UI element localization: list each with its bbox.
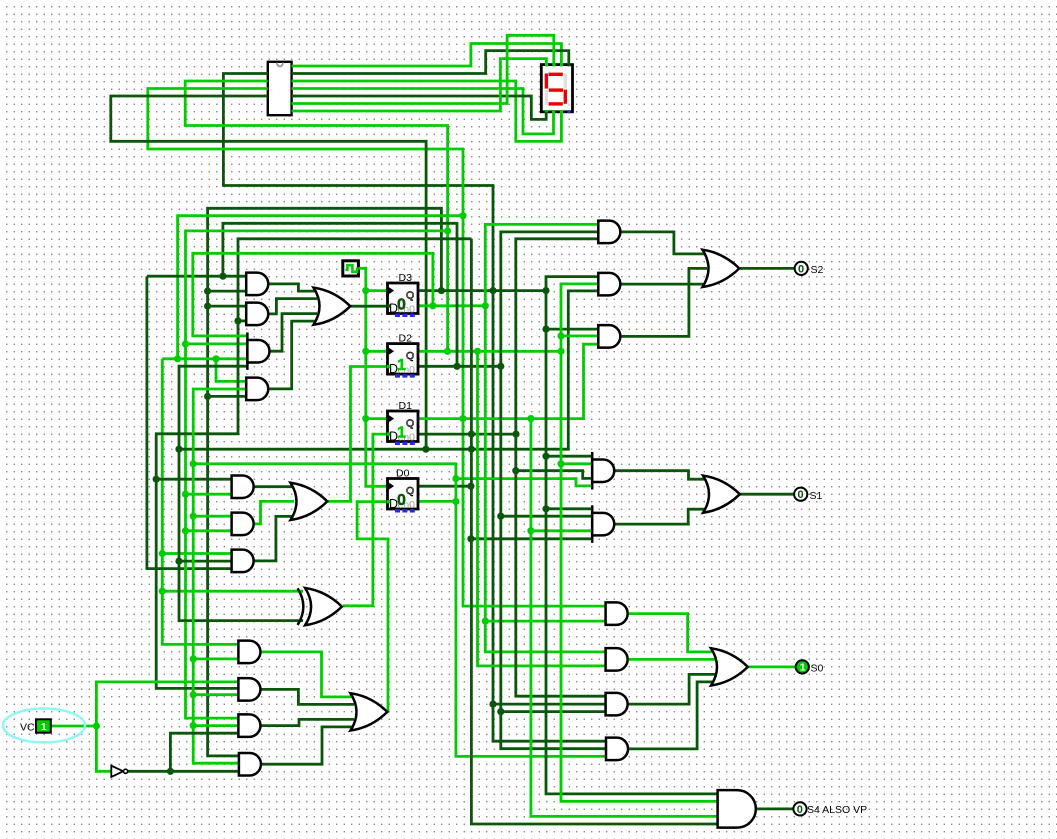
junction Q0bar colR <box>452 498 459 505</box>
AND gate H <box>606 693 628 716</box>
wire Q3bar col AND-A in1 to AND-G in1 <box>485 224 606 652</box>
svg-text:S0: S0 <box>811 662 824 674</box>
wire VC net <box>96 682 239 771</box>
wire Q1 branch row <box>162 357 248 360</box>
wire Q3 col AND-B in1 to S4 in1 <box>546 277 718 794</box>
wire Q1 stub AND7 in1 <box>162 552 232 555</box>
wire Q0bar stub AND6 in1 <box>193 515 232 518</box>
wire Q0 row AND-E in5 <box>471 537 592 540</box>
junction AND9 in3 <box>190 691 197 698</box>
wire AND8 out to OR3 in1 <box>261 652 354 697</box>
OR gate 1 <box>314 288 351 325</box>
output pin S1 <box>794 488 807 501</box>
svg-text:0: 0 <box>797 804 803 816</box>
wire Q0bar stub AND10 in2 <box>193 724 239 727</box>
junction Q0 colR <box>467 483 474 490</box>
wire clock stub D3 <box>366 289 388 292</box>
wire OR2 out to D2 <box>328 367 388 502</box>
pin nub D3 data input <box>387 304 390 307</box>
wire AND-G out to OR6 in2 <box>628 658 715 661</box>
wire OR3 out to D0 <box>357 502 388 712</box>
junction AND3 in4b <box>212 355 219 362</box>
svg-text:1: 1 <box>800 663 806 674</box>
wire AND-I out to OR6 in5 <box>629 682 715 749</box>
AND gate 7 <box>232 550 254 573</box>
wire col AND-A in3 to AND-H in1 <box>516 239 606 696</box>
junction Q2 fbdot <box>444 227 451 234</box>
wire AND-F out to OR6 in1 <box>628 614 715 652</box>
junction AND2 in1 <box>204 303 211 310</box>
wire Q2 stub AND5 in2 <box>186 493 233 496</box>
7-segment display showing 5 <box>541 65 572 112</box>
junction clock D1 <box>362 415 369 422</box>
junction clock D3 <box>362 287 369 294</box>
output pin S0 <box>796 660 809 673</box>
junction AND10 in2 <box>190 722 197 729</box>
wire Q0 feedback bus <box>156 239 471 689</box>
wire Q1 col to S4 in4 <box>531 419 718 817</box>
svg-text:Q: Q <box>406 418 414 430</box>
wire OR5 out to S1 <box>741 493 795 496</box>
junction AND-C in2 <box>557 332 564 339</box>
D flip-flop D2 <box>388 344 419 375</box>
junction AND6 in2 <box>182 527 189 534</box>
wire subbox pin6 to display top pin2 <box>292 35 554 103</box>
wire Q1 branch AND4 in1 <box>216 359 247 382</box>
wire Q3bar stub AND-F in2 <box>485 620 606 623</box>
junction row449 left <box>175 446 182 453</box>
wire AND-C out to OR4 in2 <box>621 268 707 336</box>
junction Q3 fb <box>438 287 445 294</box>
wire OR1 out to D3 <box>351 305 388 308</box>
wire Q1 branch col <box>162 359 239 645</box>
junction Q3 box net <box>489 287 496 294</box>
svg-text:0: 0 <box>798 489 804 501</box>
AND gate 8 <box>238 641 260 664</box>
junction AND5 in1 <box>153 476 160 483</box>
wire clock net <box>359 268 388 486</box>
AND gate 3 <box>246 332 249 370</box>
wire OR4 out to S2 <box>740 267 795 270</box>
svg-text:S4 ALSO VP: S4 ALSO VP <box>807 804 867 816</box>
svg-text:1: 1 <box>397 425 406 442</box>
AND gate 6 <box>232 513 254 536</box>
wire Qbar of D2 row <box>418 365 501 368</box>
AND gate G <box>606 648 628 671</box>
wire Q1bar col AND3 in5 to XOR in2 <box>179 366 303 620</box>
wire AND4 out to OR1 in5 <box>268 321 317 389</box>
wire AND9 out to OR3 in2 <box>261 689 354 704</box>
junction AND1 in1 <box>219 273 226 280</box>
svg-text:0: 0 <box>798 263 804 275</box>
wire Q2bar row AND1 in1 <box>147 275 247 278</box>
output pin S2 <box>795 262 808 275</box>
wire AND-A out to OR4 in1 <box>621 232 707 254</box>
svg-text:D1: D1 <box>399 400 413 412</box>
junction AND-D in4 <box>512 467 519 474</box>
junction AND5 in2 <box>182 491 189 498</box>
wire Q3 stub AND2 in1 <box>208 305 247 308</box>
junction AND-C in1 <box>542 326 549 333</box>
svg-text:VC: VC <box>20 722 35 734</box>
wire Q1bar stub AND7 in2 <box>179 560 232 563</box>
junction Q0bar row <box>190 460 197 467</box>
wire AND11 out to OR3 in5 <box>262 727 355 764</box>
OR gate 3 <box>351 693 388 730</box>
AND gate 2 <box>246 303 268 326</box>
wire subbox input3 net Q1 <box>148 89 606 607</box>
wire AND10 out to OR3 in4 <box>261 719 354 725</box>
junction AND-H in2 <box>489 701 496 708</box>
junction AND2 in2 <box>234 317 241 324</box>
D flip-flop D1 <box>388 411 419 442</box>
junction Q1 fbdot <box>459 212 466 219</box>
wire subbox pin5 to display bottom pin1 <box>292 96 547 119</box>
wire Q2 feedback bus <box>186 231 448 718</box>
svg-text:D2: D2 <box>399 333 413 345</box>
wire Q of D2 row <box>418 350 561 353</box>
wire Q2bar stub AND-H in3 <box>501 710 606 713</box>
wire Q1 feedback bus <box>178 216 463 359</box>
svg-text:S2: S2 <box>811 264 824 276</box>
wire Q3 stub AND1 in2 <box>208 290 247 293</box>
wire subbox pin7 to display top pin1 <box>292 59 547 111</box>
junction row449 subbox <box>422 446 429 453</box>
pin nub D1 data input <box>387 432 390 435</box>
wire Q of D3 row <box>418 289 546 292</box>
AND gate C <box>598 325 620 348</box>
AND gate A <box>598 221 620 244</box>
wire Q3 feedback bus <box>208 208 442 756</box>
OR gate 6 <box>711 648 748 685</box>
wire VC pin stub <box>51 725 96 728</box>
wire Q3 stub AND-E in1 <box>546 507 592 510</box>
pin nub D0 data input <box>387 500 390 503</box>
junction AND-E in2 <box>497 513 504 520</box>
svg-text:S1: S1 <box>810 490 823 502</box>
wire NOT branch AND10 in3 <box>170 733 239 771</box>
AND gate 1 <box>246 273 268 296</box>
junction XOR in1 <box>159 588 166 595</box>
wire OR6 out to S0 <box>749 666 796 669</box>
junction AND3 in4a <box>174 355 181 362</box>
wire Q1 stub XOR in1 <box>162 590 303 593</box>
pin nub D2 data input <box>387 365 390 368</box>
wire Q3 stub AND-H in2 <box>493 703 606 706</box>
junction Q0bar in5 <box>452 475 459 482</box>
wire Q3bar feedback bus <box>193 253 433 336</box>
wire subbox input2 net Q2 <box>185 81 447 351</box>
wire Q of D1 row to AND-C in3 <box>418 344 599 418</box>
junction Q1 fb <box>459 415 466 422</box>
junction AND4 in3 <box>204 393 211 400</box>
wire Q0 stub AND5 in1 <box>156 478 232 481</box>
OR gate 2 <box>291 483 328 520</box>
junction AND-E in5 <box>467 535 474 542</box>
AND gate 10 <box>238 714 260 737</box>
junction Q2 fb <box>444 348 451 355</box>
wire Q2bar col to AND7 in3 <box>147 276 232 568</box>
wire AND-E out to OR5 in3 <box>614 509 708 524</box>
wire clock stub D2 <box>366 350 388 353</box>
wire subbox input4 net Q0bar <box>111 96 426 449</box>
wire Qbar of D3 row <box>418 304 485 307</box>
wire Q2bar stub AND-E in2 <box>501 515 592 518</box>
wire subbox input1 net Q3 <box>223 74 606 742</box>
junction Q2 colRR <box>557 348 564 355</box>
wire subbox pin1 to display top pin3 <box>292 44 562 67</box>
svg-text:0: 0 <box>397 492 406 509</box>
svg-text:1: 1 <box>397 357 406 374</box>
NOT gate <box>111 766 123 777</box>
junction Q1bar colR <box>512 431 519 438</box>
svg-text:D3: D3 <box>399 272 413 284</box>
wire Q1bar row <box>179 291 599 449</box>
input pin VC <box>3 709 85 743</box>
wire AND7 out to OR2 in3 <box>254 516 294 561</box>
junction Q3bar fb <box>429 302 436 309</box>
wire XOR out to D1 <box>343 434 388 606</box>
junction row449 colR <box>468 446 475 453</box>
svg-text:0: 0 <box>397 297 406 314</box>
wire Q3 stub AND-C in1 <box>546 328 599 331</box>
AND gate I <box>606 738 628 761</box>
D flip-flop D0 <box>388 479 419 510</box>
wire AND3 out to OR1 in4 <box>269 314 317 352</box>
wire AND-J out to S4 <box>756 808 793 811</box>
AND gate D <box>591 452 594 490</box>
junction Q2bar colR <box>497 363 504 370</box>
wire subbox pin2 to display top pin4 <box>292 51 569 74</box>
junction Q3 col <box>542 287 549 294</box>
wire AND-D out to OR5 in1 <box>614 471 708 480</box>
junction clock D2 <box>362 348 369 355</box>
wire Q2 stub AND3 in2 <box>186 342 249 345</box>
wire Q0bar left col <box>193 389 247 763</box>
wire Q2bar col AND-A in2 to AND-I in2 <box>501 232 606 749</box>
AND gate B <box>598 273 620 296</box>
wire NOT output <box>128 770 239 773</box>
junction AND7 in2 <box>175 558 182 565</box>
wire Q2 stub AND-C in2 <box>561 334 599 337</box>
wire AND2 out to OR1 in2 <box>268 299 317 314</box>
wire row AND-D in4 <box>516 471 592 479</box>
D flip-flop D3 <box>388 283 419 314</box>
junction NOT out <box>167 768 174 775</box>
OR gate 5 <box>703 476 740 513</box>
wire Q0bar branch to AND-D in5 <box>456 479 592 486</box>
junction AND7 in1 <box>159 550 166 557</box>
svg-text:Q: Q <box>406 350 414 362</box>
wire Q0bar stub AND9 in3 <box>193 693 239 696</box>
wire Q2 col to AND-G in2 <box>478 351 607 666</box>
wire Q2bar feedback bus <box>223 223 457 366</box>
wire AND-H out to OR6 in4 <box>629 674 715 704</box>
wire Q0 col to S4 in5 <box>471 239 717 824</box>
svg-text:1: 1 <box>41 722 47 733</box>
junction AND6 in1 <box>190 513 197 520</box>
AND gate E <box>591 505 594 542</box>
wire Qbar of D0 row <box>419 500 456 503</box>
wire Q2 stub AND-D in2 <box>561 462 592 465</box>
junction AND-F in2 <box>482 618 489 625</box>
junction AND-H in3 <box>497 708 504 715</box>
junction AND-E in1 <box>542 505 549 512</box>
junction Q2 colR <box>474 348 481 355</box>
wire Q0bar stub AND8 in2 <box>193 658 239 661</box>
wire Q1 stub AND-E in4 <box>531 529 592 532</box>
junction Q2bar fb <box>453 363 460 370</box>
wire Q0bar row to AND-I in3 <box>193 464 606 757</box>
svg-text:Q: Q <box>406 290 414 302</box>
wire subbox pin3 to display bottom pin3 <box>292 81 562 141</box>
XOR gate <box>305 588 342 625</box>
wire AND-B out to OR4 in3 <box>621 283 707 286</box>
wire Q3 stub AND-D in1 <box>546 455 592 458</box>
junction VC <box>93 722 100 729</box>
clock component <box>343 261 359 276</box>
AND gate 4 <box>246 378 268 401</box>
junction AND8 in2 <box>190 655 197 662</box>
svg-text:Q: Q <box>406 485 414 497</box>
wire AND5 out to OR2 in1 <box>254 485 294 488</box>
wire Q2 stub AND6 in2 <box>186 529 233 532</box>
wire subbox pin4 to display bottom pin2 <box>292 89 554 134</box>
wire AND6 out to OR2 in2 <box>254 501 294 524</box>
junction AND-E in4 <box>527 527 534 534</box>
junction AND-D in1 <box>542 453 549 460</box>
svg-text:D0: D0 <box>396 468 410 480</box>
wire Q3 stub AND4 in3 <box>208 395 247 398</box>
wire Q0 stub AND2 in2 <box>238 319 247 322</box>
junction Q1bar fb <box>468 431 475 438</box>
junction AND1 in2 <box>204 288 211 295</box>
wire Q of D0 row <box>419 485 471 488</box>
wire AND1 out to OR1 in1 <box>268 284 317 291</box>
wire Q2 col AND-B in2 to S4 in2 <box>561 284 718 802</box>
AND gate 11 <box>239 753 261 776</box>
output pin S4 <box>793 802 806 815</box>
AND gate 9 <box>238 678 260 701</box>
junction AND3 in2 <box>182 340 189 347</box>
AND gate J <box>718 790 756 828</box>
junction AND-D in2 <box>557 460 564 467</box>
wire Qbar of D1 row <box>418 433 516 436</box>
junction Q1 colR <box>527 415 534 422</box>
AND gate F <box>606 602 628 625</box>
OR gate 4 <box>703 250 740 287</box>
subcircuit box U1 <box>268 62 292 115</box>
AND gate 5 <box>232 475 254 498</box>
wire clock stub D1 <box>366 417 388 420</box>
junction Q3bar col <box>482 302 489 309</box>
